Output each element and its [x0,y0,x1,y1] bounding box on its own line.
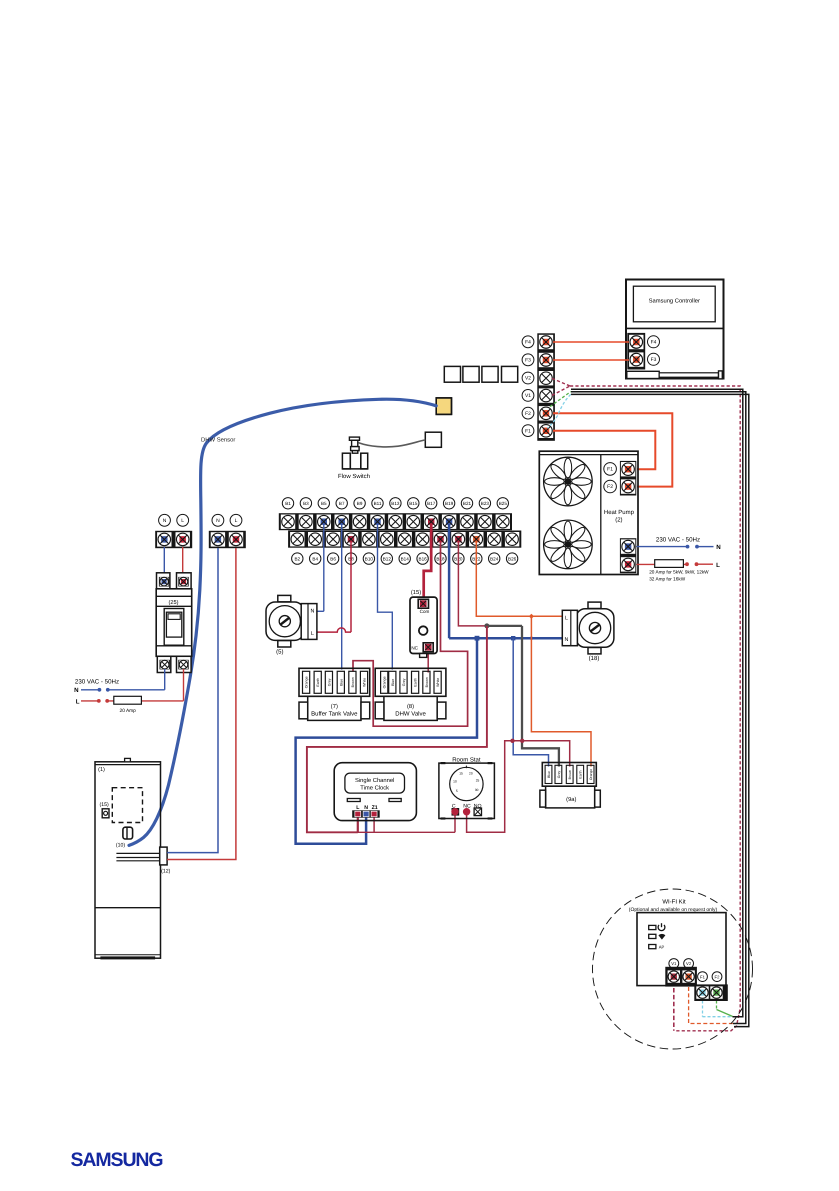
svg-text:L: L [181,518,184,524]
svg-text:N: N [716,544,721,551]
svg-text:N: N [364,805,368,811]
svg-text:DHW Valve: DHW Valve [395,710,426,717]
svg-text:B15: B15 [409,501,418,506]
svg-text:V2: V2 [525,376,531,382]
svg-text:(2): (2) [615,516,622,523]
svg-text:B4: B4 [312,556,318,561]
svg-text:(8): (8) [407,703,414,710]
svg-text:10: 10 [453,779,457,783]
svg-text:(1): (1) [98,766,105,773]
svg-text:L: L [311,631,314,637]
svg-text:V1: V1 [525,393,531,399]
svg-text:B1: B1 [285,501,291,506]
svg-text:B2: B2 [294,556,300,561]
svg-text:Room Stat: Room Stat [452,756,481,763]
svg-text:(15): (15) [99,802,108,808]
svg-text:Blue: Blue [547,771,551,778]
svg-text:Orange: Orange [383,676,387,688]
svg-text:L: L [235,518,238,524]
svg-text:B26: B26 [508,556,517,561]
svg-text:Brown: Brown [425,677,429,687]
svg-text:Blue: Blue [339,679,343,686]
svg-text:F2: F2 [607,484,613,490]
svg-text:Earth: Earth [579,770,583,778]
svg-text:25: 25 [476,778,480,782]
svg-text:White: White [363,678,367,687]
svg-text:F4: F4 [525,340,531,346]
svg-text:Samsung Controller: Samsung Controller [649,298,700,305]
svg-text:5: 5 [456,789,458,793]
svg-text:B16: B16 [419,556,428,561]
svg-text:B14: B14 [401,556,410,561]
svg-text:B17: B17 [427,501,436,506]
svg-text:F2: F2 [715,974,721,979]
svg-text:AP: AP [659,944,665,949]
svg-text:15: 15 [459,772,463,776]
svg-text:B6: B6 [330,556,336,561]
svg-text:Brown: Brown [568,770,572,780]
svg-text:F3: F3 [525,358,531,364]
svg-text:N: N [74,687,79,694]
svg-text:32 Amp for 16kW: 32 Amp for 16kW [649,577,686,582]
svg-text:Grey: Grey [557,771,561,779]
svg-text:Single Channel: Single Channel [355,777,394,784]
svg-text:(5): (5) [276,648,283,655]
svg-text:SAMSUNG: SAMSUNG [71,1149,163,1171]
svg-text:Heat Pump: Heat Pump [604,509,635,516]
svg-text:Buffer Tank Valve: Buffer Tank Valve [311,710,358,717]
svg-text:V2: V2 [686,961,692,966]
svg-text:B9: B9 [357,501,363,506]
svg-text:NC: NC [411,645,418,650]
svg-text:Orange: Orange [589,769,593,780]
svg-text:B24: B24 [490,556,499,561]
svg-text:B19: B19 [445,501,454,506]
svg-text:Earth: Earth [316,678,320,687]
svg-text:Blue: Blue [391,679,395,686]
svg-text:Grey: Grey [402,678,406,686]
svg-text:N: N [216,518,220,524]
svg-text:Flow Switch: Flow Switch [338,473,370,480]
svg-text:B7: B7 [339,501,345,506]
svg-text:Time Clock: Time Clock [360,784,389,791]
svg-text:(15): (15) [411,589,421,596]
svg-text:White: White [436,678,440,687]
svg-text:20: 20 [469,771,473,775]
svg-text:F2: F2 [525,411,531,417]
svg-text:N: N [163,518,167,524]
svg-text:N: N [311,608,315,614]
svg-text:B23: B23 [481,501,490,506]
svg-text:L: L [716,562,720,569]
svg-text:DHW Sensor: DHW Sensor [201,437,235,444]
svg-text:B11: B11 [374,501,382,506]
svg-text:F1: F1 [607,467,613,473]
svg-text:N: N [565,637,569,643]
svg-text:B12: B12 [383,556,392,561]
svg-text:B3: B3 [303,501,309,506]
svg-text:L: L [565,615,568,621]
svg-text:B21: B21 [463,501,472,506]
svg-text:V1: V1 [671,961,677,966]
svg-text:20 Amp for 5kW, 9kW, 12kW: 20 Amp for 5kW, 9kW, 12kW [649,570,709,575]
svg-text:Orange: Orange [305,676,309,688]
svg-text:B10: B10 [365,556,374,561]
svg-text:F3: F3 [651,357,657,363]
svg-text:(9a): (9a) [566,796,576,803]
svg-text:Grey: Grey [327,678,331,686]
svg-text:(25): (25) [169,599,179,606]
svg-text:B13: B13 [391,501,400,506]
svg-text:Brown: Brown [351,677,355,687]
svg-text:L: L [76,699,80,706]
svg-text:Earth: Earth [414,678,418,687]
svg-text:WI-FI Kit: WI-FI Kit [662,899,686,906]
svg-text:B25: B25 [499,501,508,506]
svg-text:230 VAC - 50Hz: 230 VAC - 50Hz [75,679,119,686]
svg-text:F4: F4 [651,340,657,346]
svg-text:(12): (12) [161,868,170,874]
svg-text:20 Amp: 20 Amp [120,708,137,714]
svg-text:(7): (7) [331,703,338,710]
svg-text:F1: F1 [700,974,706,979]
svg-text:(10): (10) [116,842,125,848]
svg-text:F1: F1 [525,428,531,434]
svg-text:(18): (18) [589,655,600,662]
svg-text:Com: Com [420,609,430,614]
svg-text:B5: B5 [321,501,327,506]
svg-text:Z1: Z1 [372,805,378,811]
svg-text:230 VAC - 50Hz: 230 VAC - 50Hz [656,537,700,544]
svg-text:30: 30 [475,788,479,792]
